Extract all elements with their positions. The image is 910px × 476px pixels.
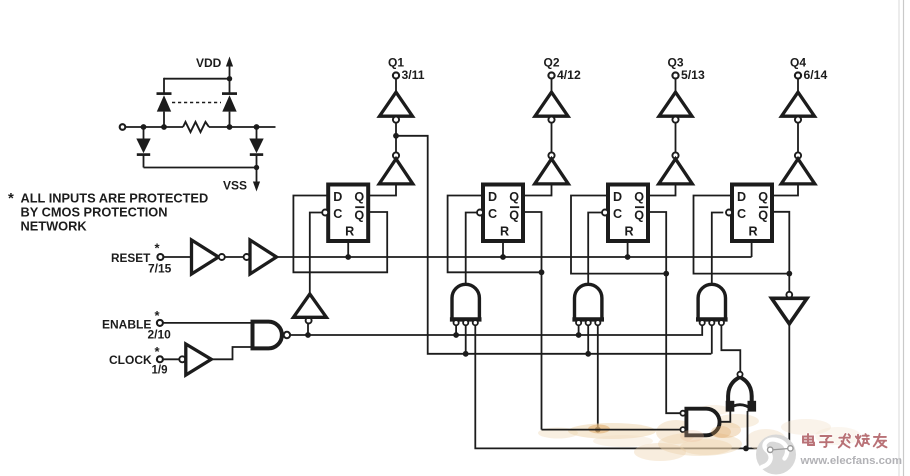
wire RESET line across [277, 256, 752, 258]
bubble G2 input 3 [473, 320, 478, 325]
node FF2 Qbar node [539, 269, 545, 275]
inverter Q3 lower [659, 159, 693, 184]
svg-text:VDD: VDD [196, 56, 222, 70]
wire Q1 from flip-flop Q [368, 184, 396, 196]
node input node A [141, 124, 147, 130]
wire U4 to FF1 C [310, 213, 322, 295]
bubble G6 output [737, 372, 742, 377]
wire input line left [125, 126, 183, 128]
border line right outer [903, 0, 905, 476]
bubble U1 output [219, 254, 225, 260]
svg-text:D: D [613, 190, 622, 204]
svg-text:NETWORK: NETWORK [21, 219, 88, 234]
bubble Q3 upper buffer input [672, 117, 678, 123]
node Q1 at AND G2 [463, 351, 469, 357]
wire Q1 terminal to buffer [395, 79, 397, 92]
svg-text:*: * [8, 190, 14, 207]
wire Q2 from flip-flop Q [523, 184, 552, 196]
nor gate G6 (decade logic, points up) [726, 377, 756, 412]
inverter U1 (RESET) [192, 240, 219, 274]
node FF3 Qbar node [663, 271, 669, 277]
wire Q4 terminal to buffer [797, 79, 799, 92]
svg-text:2/10: 2/10 [148, 328, 172, 342]
wire clock to buffer U4 [307, 323, 309, 335]
wire G6 input from bottom line [747, 411, 749, 448]
terminal Q3 output pin [672, 72, 678, 78]
svg-text:3/11: 3/11 [402, 68, 425, 82]
wire dashed link between D1 and D2 [172, 102, 221, 104]
svg-text:7/15: 7/15 [148, 262, 172, 276]
svg-text:4/12: 4/12 [557, 68, 581, 82]
bubble U4 input [306, 318, 312, 324]
wire FF2 R to reset line [502, 241, 504, 257]
wire G5 output to NOR G6 [719, 409, 730, 422]
bubble U13 input [786, 292, 792, 298]
and gate G4 (clock gating) [698, 284, 725, 319]
node bottom line at NOR G6 [743, 446, 749, 452]
svg-text:Q: Q [354, 209, 364, 223]
wire Q3 terminal to buffer [675, 79, 677, 92]
wire G2 input Q1 [465, 325, 467, 354]
svg-text:Q: Q [634, 209, 644, 223]
bubble G2 input 1 [454, 320, 459, 325]
flip-flop FF4 [732, 185, 772, 242]
bubble Q4 lower inverter output [795, 152, 801, 158]
node Qbar2 at G3 [595, 427, 601, 433]
svg-text:D: D [737, 190, 746, 204]
svg-text:1/9: 1/9 [152, 365, 168, 377]
decorative smudge overlay [680, 426, 732, 455]
and gate G3 (clock gating) [575, 284, 602, 319]
svg-text:Q: Q [758, 190, 768, 204]
svg-text:D: D [488, 190, 497, 204]
inverter Q1 lower [379, 159, 413, 184]
wire FF4 Qbar to inverter U13 [788, 274, 790, 292]
flip-flop FF1 [328, 185, 368, 242]
bubble FF3 C input [602, 210, 608, 216]
node RESET at FF1 R [345, 254, 351, 260]
bubble U3 input [179, 356, 185, 362]
bubble G2 input 2 [463, 320, 468, 325]
wire FF3 Qbar down to NAND G5 [666, 274, 680, 414]
wire G4 input clock [701, 325, 704, 335]
wire protection bottom rail [144, 167, 257, 169]
svg-text:CLOCK: CLOCK [109, 353, 152, 367]
svg-text:www.elecfans.com: www.elecfans.com [800, 455, 903, 467]
and gate G2 (clock gating) [452, 284, 479, 319]
wire Q2 between buffers [551, 123, 553, 153]
node clock tap FF1 [305, 332, 311, 338]
wire U13 output down [788, 324, 790, 449]
wire FF1 R to reset line [347, 241, 349, 257]
svg-text:BY CMOS PROTECTION: BY CMOS PROTECTION [21, 205, 168, 220]
wire Q1 distribution line [396, 136, 711, 354]
wire ENABLE to NAND G1 [163, 322, 253, 324]
bubble G1 output [284, 332, 290, 338]
terminal ENABLE pin 2/10 [157, 320, 163, 326]
buffer Q3 upper [659, 92, 692, 116]
node clock tap AND G3 [576, 332, 582, 338]
wire G3 output to flip-flop C [588, 213, 602, 285]
svg-text:R: R [749, 225, 758, 239]
bubble Q1 lower inverter output [393, 152, 399, 158]
bubble Q1 upper buffer input [393, 117, 399, 123]
terminal RESET pin 7/15 [157, 254, 163, 260]
diode D2 (input to VDD, right) [222, 94, 237, 112]
wire FF4 R to reset line [751, 241, 753, 257]
resistor R (input series) [183, 122, 209, 132]
wire G2 input from inverter U13 / bottom line [475, 325, 789, 448]
bubble Q2 upper buffer input [548, 117, 554, 123]
wire CLOCK terminal to inverter U3 [163, 358, 180, 360]
node FF4 Qbar node [786, 271, 792, 277]
logo elecfans circle [756, 435, 796, 475]
terminal CLOCK pin 1/9 [157, 356, 163, 362]
bubble G5 input 1 [680, 411, 685, 416]
svg-text:ALL INPUTS ARE PROTECTED: ALL INPUTS ARE PROTECTED [21, 191, 209, 206]
svg-text:Q: Q [509, 190, 519, 204]
terminal Q1 output pin [393, 72, 399, 78]
svg-text:Q: Q [509, 209, 519, 223]
svg-text:R: R [345, 225, 354, 239]
wire G2 output to flip-flop C [466, 213, 477, 285]
svg-text:6/14: 6/14 [804, 68, 828, 82]
nand gate G5 (decade logic) [686, 409, 719, 436]
buffer Q1 upper [380, 92, 413, 116]
node input node B [161, 124, 167, 130]
wire FF1 Qbar to D feedback [293, 196, 387, 273]
svg-text:C: C [333, 207, 342, 221]
flip-flop FF2 [483, 185, 523, 242]
bubble G3 input 3 [595, 320, 600, 325]
wire G3 input clock [578, 325, 580, 335]
bubble G4 input 3 [719, 320, 724, 325]
wire Q4 between buffers [797, 123, 799, 153]
VDD arrow [226, 57, 233, 79]
bubble U2 input [244, 254, 250, 260]
node clock tap AND G2 [453, 332, 459, 338]
svg-text:Q: Q [354, 190, 364, 204]
inverter Q2 lower [535, 159, 569, 184]
wire FF4 Qbar right [772, 212, 789, 274]
svg-text:Q: Q [634, 190, 644, 204]
wire right top stub [229, 79, 231, 94]
node RESET at FF3 R [625, 254, 631, 260]
node RESET at FF2 R [500, 254, 506, 260]
wire FF2 Qbar down [541, 272, 543, 429]
wire FF2 Qbar to D feedback [448, 196, 542, 273]
wire U3 to NAND G1 [211, 347, 252, 359]
wire G4 output to flip-flop C [712, 213, 724, 285]
VSS arrow [253, 168, 260, 192]
bubble Q2 lower inverter output [548, 152, 554, 158]
svg-text:C: C [737, 207, 746, 221]
wire input line right [209, 126, 276, 128]
svg-text:VSS: VSS [223, 179, 247, 193]
wire Q3 from flip-flop Q [648, 184, 676, 196]
svg-text:Q: Q [758, 209, 768, 223]
buffer U4 (FF1 clock) [293, 294, 326, 317]
terminal Q2 output pin [548, 72, 554, 78]
wire FF3 R to reset line [627, 241, 629, 257]
buffer Q4 upper [782, 92, 815, 116]
wire G4 input Q1 [711, 325, 713, 354]
watermark text (CJK, drawn) [803, 434, 887, 448]
flip-flop FF3 [608, 185, 648, 242]
wire Q4 from flip-flop Q [772, 184, 798, 196]
wire D2 lower lead [229, 112, 231, 127]
wire Q3 between buffers [675, 123, 677, 153]
bubble FF4 C input [726, 210, 732, 216]
decorative smudges (erased watermark residue) [538, 405, 861, 461]
diode D1 (input to VDD, left) [157, 94, 172, 112]
node Q1 feedback node [393, 133, 399, 139]
svg-text:C: C [488, 207, 497, 221]
svg-text:5/13: 5/13 [681, 68, 705, 82]
terminal protection input [120, 124, 126, 130]
terminal Q4 output pin [795, 72, 801, 78]
bubble Q3 lower inverter output [672, 152, 678, 158]
svg-text:D: D [333, 190, 342, 204]
wire Q2 terminal to buffer [551, 79, 553, 92]
svg-text:ENABLE: ENABLE [102, 318, 151, 332]
diode D3 (VSS to input, left) [136, 127, 150, 168]
wire protection top rail [164, 78, 230, 80]
inverter U13 (Qbar4, down) [772, 298, 807, 324]
wire G2 input clock [455, 325, 457, 335]
bubble Q4 upper buffer input [795, 117, 801, 123]
bubble G4 input 1 [700, 320, 705, 325]
wire RESET terminal to inverter U1 [163, 256, 191, 258]
bubble G5 input 2 [680, 427, 685, 432]
node VDD rail junction [227, 76, 232, 81]
wire left top stub [163, 78, 165, 94]
border line right [898, 0, 900, 476]
buffer Q2 upper [535, 92, 568, 116]
node input node C [227, 124, 233, 130]
wire U1 to U2 [225, 256, 244, 258]
node input node D [254, 124, 260, 130]
wire D1 lower lead [163, 112, 165, 127]
node Q1 at AND G3 [585, 351, 591, 357]
wire G3 input Qbar2 [597, 325, 599, 429]
bubble G3 input 2 [586, 320, 591, 325]
bubble FF1 C input [322, 210, 328, 216]
svg-text:RESET: RESET [111, 251, 151, 265]
buffer U2 (RESET) [250, 240, 277, 274]
wire FF4 D feedback bottom [694, 196, 790, 274]
diode D4 (VSS to input, right) [249, 127, 263, 168]
svg-text:R: R [500, 225, 509, 239]
wire FF3 Qbar to D feedback [571, 196, 666, 274]
svg-text:R: R [625, 225, 634, 239]
wire G4 input from NOR G6 [721, 325, 740, 371]
inverter Q4 lower [781, 159, 815, 184]
svg-text:C: C [613, 207, 622, 221]
wire G3 input Q1 [587, 325, 589, 354]
wire gated clock line [290, 334, 701, 336]
node VSS rail junction [254, 165, 259, 170]
wire Q1 between buffers [395, 123, 397, 153]
inverter U3 (CLOCK) [186, 344, 212, 375]
wire Qbar2 to NAND G5 [542, 429, 681, 431]
bubble G4 input 2 [709, 320, 714, 325]
bubble G3 input 1 [576, 320, 581, 325]
nand gate G1 (clock/enable) [253, 322, 282, 349]
bubble FF2 C input [477, 210, 483, 216]
